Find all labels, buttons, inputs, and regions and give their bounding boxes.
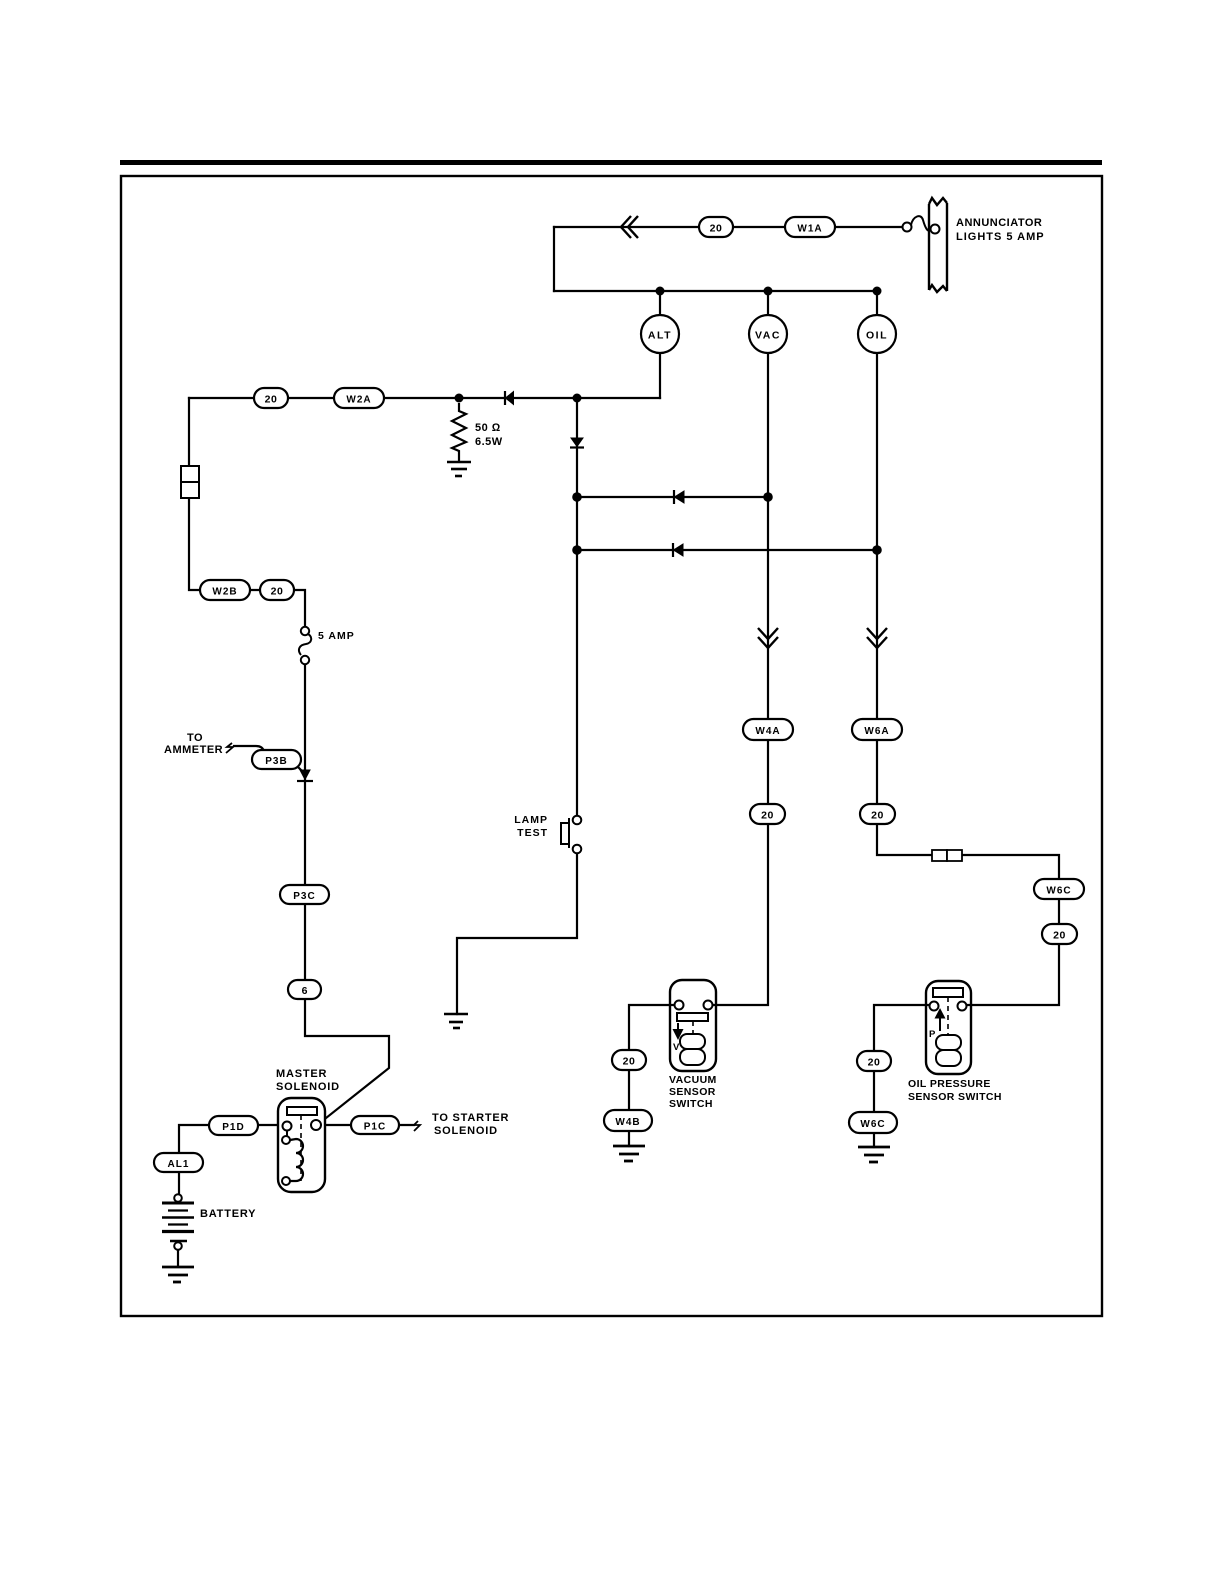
svg-text:20: 20 bbox=[271, 586, 284, 598]
svg-text:OIL PRESSURE: OIL PRESSURE bbox=[908, 1078, 991, 1090]
connector W1A bbox=[785, 217, 835, 237]
diode CR3 on VAC cross tie bbox=[674, 490, 684, 504]
wire W2B to fuse bbox=[250, 590, 305, 627]
svg-text:VAC: VAC bbox=[755, 330, 781, 342]
lamp VAC bbox=[749, 315, 787, 353]
connector P3B bbox=[252, 750, 301, 769]
svg-text:W6C: W6C bbox=[860, 1119, 885, 1130]
svg-text:20: 20 bbox=[868, 1057, 881, 1069]
svg-text:20: 20 bbox=[265, 394, 278, 406]
connector chevron on VAC column bbox=[758, 628, 778, 648]
svg-text:W6A: W6A bbox=[864, 726, 889, 737]
svg-text:P3C: P3C bbox=[293, 891, 315, 902]
connector label 20 (oil switch leg) bbox=[857, 1051, 891, 1071]
wire battery to P1D bbox=[179, 1125, 209, 1153]
svg-text:LIGHTS 5 AMP: LIGHTS 5 AMP bbox=[956, 231, 1045, 243]
connector label 20 (W4A line) bbox=[750, 804, 785, 824]
wire left drop from W1A line to lamp bus bbox=[553, 227, 555, 291]
ground for vacuum switch leg W4B bbox=[613, 1146, 645, 1161]
ground for battery bbox=[162, 1267, 194, 1282]
connector label 20 (W6A line) bbox=[860, 804, 895, 824]
connector chevron on annunciator feed bbox=[621, 216, 638, 238]
lamp OIL bbox=[858, 315, 896, 353]
connector label 20 (W2A line) bbox=[254, 388, 288, 408]
wire lamp test to ground bbox=[457, 853, 577, 1014]
fuse 5 AMP bbox=[299, 627, 311, 664]
svg-text:20: 20 bbox=[1053, 930, 1066, 942]
connector chevron on OIL column bbox=[867, 628, 887, 648]
oil pressure sensor switch S2 bbox=[926, 981, 971, 1074]
svg-text:W4A: W4A bbox=[755, 726, 780, 737]
wire node A vertical drop (lamp-test branch) bbox=[576, 398, 578, 816]
svg-text:20: 20 bbox=[871, 810, 884, 822]
wire P3B oval to branch line bbox=[298, 767, 305, 774]
svg-text:20: 20 bbox=[761, 810, 774, 822]
ground for oil switch leg W6C bbox=[858, 1147, 890, 1162]
svg-text:TO: TO bbox=[187, 732, 203, 744]
wire OIL column bbox=[877, 353, 1059, 1005]
svg-text:SENSOR: SENSOR bbox=[669, 1086, 716, 1098]
wire lamp bus bbox=[554, 290, 877, 292]
wire ALT lamp to W2A line bbox=[659, 353, 661, 398]
svg-text:P: P bbox=[929, 1029, 936, 1040]
connector AL1 bbox=[154, 1153, 203, 1172]
svg-text:AMMETER: AMMETER bbox=[164, 744, 223, 756]
connector label 20 (W6C line) bbox=[1042, 924, 1077, 944]
connector P3C bbox=[280, 885, 329, 904]
lamp ALT bbox=[641, 315, 679, 353]
wire left column drop to W2B bbox=[189, 398, 200, 590]
wire cross tie to VAC line bbox=[577, 496, 768, 498]
svg-text:AL1: AL1 bbox=[168, 1159, 190, 1170]
ground for lamp test bbox=[444, 1014, 468, 1028]
lamp test pushbutton switch bbox=[561, 816, 581, 854]
svg-text:W2B: W2B bbox=[212, 587, 237, 598]
fuse on oil sensor line bbox=[932, 850, 962, 861]
diode CR4 on OIL cross tie bbox=[673, 543, 683, 557]
diode CR5 below P3B tap bbox=[297, 770, 313, 781]
svg-text:5 AMP: 5 AMP bbox=[318, 630, 355, 642]
svg-text:LAMP: LAMP bbox=[514, 814, 548, 826]
connector P1D bbox=[209, 1116, 258, 1135]
svg-text:20: 20 bbox=[710, 223, 723, 235]
connector W4A bbox=[743, 719, 793, 740]
wire W2A horizontal run bbox=[189, 397, 660, 399]
connector W4B bbox=[604, 1110, 652, 1131]
master solenoid K1 bbox=[278, 1098, 325, 1192]
break symbol to starter solenoid bbox=[414, 1121, 420, 1131]
wire 6 to master solenoid bbox=[305, 998, 389, 1122]
connector W2B bbox=[200, 580, 250, 600]
wire cross tie to OIL line bbox=[577, 549, 877, 551]
svg-text:W1A: W1A bbox=[797, 224, 822, 235]
wire P1D to solenoid terminal bbox=[258, 1124, 283, 1126]
break symbol to ammeter bbox=[226, 743, 233, 753]
annunciator pin circle on strip bbox=[931, 225, 940, 234]
svg-text:VACUUM: VACUUM bbox=[669, 1074, 717, 1086]
battery BT1 bbox=[162, 1194, 194, 1266]
wire P1C to starter solenoid bbox=[399, 1124, 414, 1126]
svg-text:SOLENOID: SOLENOID bbox=[434, 1125, 498, 1137]
wire bus to ALT lamp bbox=[659, 291, 661, 315]
svg-text:50 Ω: 50 Ω bbox=[475, 422, 501, 434]
svg-text:W6C: W6C bbox=[1046, 886, 1071, 897]
wire fuse to P3C bbox=[304, 664, 306, 885]
connector W2A bbox=[334, 388, 384, 408]
connector label 20 (W1A line) bbox=[699, 217, 733, 237]
inline connector on left column bbox=[181, 466, 199, 498]
svg-text:ANNUNCIATOR: ANNUNCIATOR bbox=[956, 217, 1042, 229]
connector label 20 (W2B line) bbox=[260, 580, 294, 600]
connector W6C upper bbox=[1034, 879, 1084, 899]
vacuum sensor switch S1 bbox=[670, 980, 716, 1071]
svg-text:OIL: OIL bbox=[866, 330, 888, 342]
svg-text:SWITCH: SWITCH bbox=[669, 1098, 713, 1110]
annunciator connector pins and jumper bbox=[903, 216, 932, 231]
wire VAC column bbox=[713, 353, 768, 1005]
wire oil switch to ground leg bbox=[874, 1005, 929, 1147]
connector P1C bbox=[351, 1116, 399, 1134]
svg-text:P3B: P3B bbox=[265, 756, 287, 767]
connector W6A bbox=[852, 719, 902, 740]
diode CR1 on W2A line bbox=[505, 391, 514, 405]
wire W1A annunciator feed bbox=[554, 226, 903, 228]
wire solenoid to P1C bbox=[321, 1124, 351, 1126]
svg-text:ALT: ALT bbox=[648, 330, 672, 342]
svg-text:20: 20 bbox=[623, 1056, 636, 1068]
diode CR2 vertical on lamp-test branch bbox=[570, 438, 584, 448]
connector label 20 (vacuum switch leg) bbox=[612, 1050, 646, 1070]
svg-text:SOLENOID: SOLENOID bbox=[276, 1081, 340, 1093]
resistor R1 50 ohm 6.5W bbox=[452, 403, 466, 462]
svg-text:V: V bbox=[673, 1042, 680, 1053]
connector W6C lower bbox=[849, 1112, 897, 1133]
wire ammeter tap bbox=[234, 746, 264, 752]
svg-text:6.5W: 6.5W bbox=[475, 436, 503, 448]
svg-text:W2A: W2A bbox=[346, 395, 371, 406]
svg-text:P1D: P1D bbox=[222, 1122, 244, 1133]
wire AL1 to battery bbox=[178, 1172, 180, 1193]
connector label 6 bbox=[288, 980, 321, 999]
svg-text:BATTERY: BATTERY bbox=[200, 1208, 256, 1220]
svg-text:W4B: W4B bbox=[615, 1117, 640, 1128]
svg-text:6: 6 bbox=[302, 985, 308, 997]
wire bus to OIL lamp bbox=[876, 291, 878, 315]
svg-text:SENSOR SWITCH: SENSOR SWITCH bbox=[908, 1091, 1002, 1103]
svg-text:MASTER: MASTER bbox=[276, 1068, 327, 1080]
svg-text:P1C: P1C bbox=[364, 1122, 386, 1133]
wire P3C to 6 bbox=[304, 903, 306, 980]
svg-text:TEST: TEST bbox=[517, 827, 548, 839]
ground for resistor R1 bbox=[447, 462, 471, 476]
svg-text:TO STARTER: TO STARTER bbox=[432, 1112, 509, 1124]
node junction dots bbox=[455, 287, 882, 555]
wire vacuum switch to ground leg bbox=[629, 1005, 675, 1146]
annunciator panel strip bbox=[929, 198, 947, 292]
wire bus to VAC lamp bbox=[767, 291, 769, 315]
